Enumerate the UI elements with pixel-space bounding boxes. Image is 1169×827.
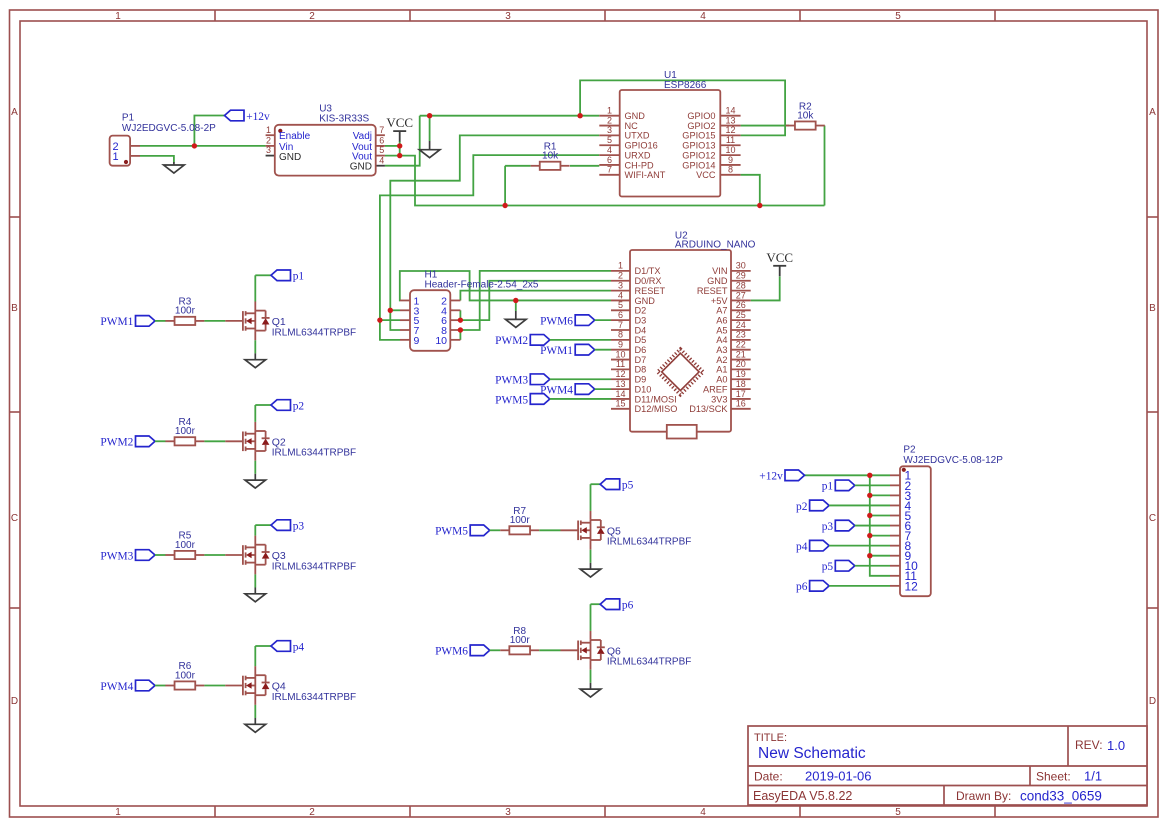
svg-text:New Schematic: New Schematic bbox=[758, 745, 866, 762]
svg-text:3: 3 bbox=[505, 807, 511, 818]
svg-text:3: 3 bbox=[618, 280, 623, 290]
svg-text:ARDUINO_NANO: ARDUINO_NANO bbox=[675, 239, 756, 250]
junction bbox=[502, 203, 507, 208]
svg-text:12: 12 bbox=[905, 579, 919, 593]
transistor Q6 bbox=[561, 631, 692, 670]
svg-text:12: 12 bbox=[615, 369, 625, 379]
svg-text:WJ2EDGVC-5.08-12P: WJ2EDGVC-5.08-12P bbox=[903, 455, 1003, 466]
svg-text:p3: p3 bbox=[822, 521, 834, 533]
wire +12v flag to P2 pin1 bbox=[805, 474, 891, 476]
wire p4 flag lead bbox=[255, 645, 271, 647]
svg-text:1: 1 bbox=[266, 125, 271, 135]
svg-text:GPIO14: GPIO14 bbox=[682, 160, 715, 170]
svg-text:1: 1 bbox=[607, 106, 612, 116]
svg-text:30: 30 bbox=[736, 261, 746, 271]
svg-text:D8: D8 bbox=[635, 365, 647, 375]
junction bbox=[577, 113, 582, 118]
svg-text:GPIO15: GPIO15 bbox=[682, 131, 715, 141]
ground bbox=[580, 563, 601, 577]
net flag p1 at P2 bbox=[822, 480, 855, 493]
svg-text:PWM3: PWM3 bbox=[100, 550, 133, 562]
svg-text:B: B bbox=[11, 303, 18, 314]
net flag p2 bbox=[271, 400, 304, 413]
svg-text:PWM1: PWM1 bbox=[540, 345, 573, 357]
svg-text:9: 9 bbox=[728, 155, 733, 165]
svg-text:1/1: 1/1 bbox=[1084, 769, 1102, 784]
svg-text:11: 11 bbox=[726, 135, 735, 145]
svg-text:p5: p5 bbox=[822, 561, 834, 573]
svg-text:24: 24 bbox=[736, 320, 746, 330]
svg-text:IRLML6344TRPBF: IRLML6344TRPBF bbox=[272, 448, 356, 459]
svg-text:PWM2: PWM2 bbox=[495, 335, 528, 347]
svg-text:29: 29 bbox=[736, 271, 746, 281]
svg-text:+12v: +12v bbox=[246, 111, 270, 123]
net flag PWM6 bbox=[435, 645, 490, 658]
svg-text:GND: GND bbox=[707, 276, 728, 286]
svg-text:p5: p5 bbox=[622, 480, 634, 492]
net flag p3 bbox=[271, 520, 304, 533]
wire Q1 drain to p1 flag bbox=[254, 275, 256, 301]
svg-text:p2: p2 bbox=[796, 501, 808, 513]
wire Q6 drain to p6 flag bbox=[590, 604, 592, 631]
svg-text:p4: p4 bbox=[796, 541, 808, 553]
wire R2 right to VCC rail bbox=[824, 126, 826, 206]
wire p2 to P2 pin4 bbox=[829, 504, 890, 506]
svg-text:C: C bbox=[1149, 513, 1156, 524]
wire rail to P2 pin9 bbox=[870, 555, 890, 557]
wire Q1 source to ground bbox=[254, 340, 256, 353]
svg-text:D5: D5 bbox=[635, 335, 647, 345]
wire ESP8266 GPIO2 to R2 bbox=[741, 125, 789, 127]
svg-text:p1: p1 bbox=[822, 481, 834, 493]
svg-text:1: 1 bbox=[618, 261, 623, 271]
svg-text:7: 7 bbox=[618, 320, 623, 330]
wire R1 left to VCC rail bbox=[504, 166, 506, 206]
wire PWM5 to R bbox=[490, 529, 501, 531]
svg-text:26: 26 bbox=[736, 300, 746, 310]
wire PWM4 to R bbox=[155, 685, 166, 687]
wire VCC net: U3 Vout to ESP8266 VCC / R2 bbox=[385, 156, 825, 206]
svg-text:18: 18 bbox=[736, 379, 746, 389]
svg-text:A1: A1 bbox=[716, 365, 727, 375]
svg-text:VCC: VCC bbox=[696, 170, 716, 180]
svg-text:PWM6: PWM6 bbox=[435, 646, 468, 658]
wire p2 flag lead bbox=[255, 404, 271, 406]
wire ESP8266 pin1 loop to GPIO15 pin12 bbox=[580, 80, 785, 135]
wire P1 pin1 to ground bbox=[140, 156, 174, 163]
svg-text:AREF: AREF bbox=[703, 384, 728, 394]
junction bbox=[458, 327, 463, 332]
wire R to Q5 gate bbox=[539, 529, 560, 531]
wire H1 pin6 to Arduino D0/RX bbox=[460, 281, 611, 320]
svg-text:A4: A4 bbox=[716, 335, 727, 345]
svg-text:A0: A0 bbox=[716, 375, 727, 385]
wire PWM6 to R bbox=[490, 649, 501, 651]
transistor Q4 bbox=[225, 666, 356, 705]
junction bbox=[388, 308, 393, 313]
wire Q3 drain to p3 flag bbox=[254, 525, 256, 536]
wire p4 to P2 pin8 bbox=[829, 545, 890, 547]
svg-text:4: 4 bbox=[607, 145, 612, 155]
net flag p4 bbox=[271, 641, 304, 654]
svg-text:2: 2 bbox=[607, 115, 612, 125]
wire p1 to P2 pin2 bbox=[855, 484, 890, 486]
svg-text:Date:: Date: bbox=[754, 770, 783, 784]
svg-text:UTXD: UTXD bbox=[625, 131, 650, 141]
svg-text:D9: D9 bbox=[635, 375, 647, 385]
connector P2 bbox=[890, 445, 1003, 597]
svg-text:Header-Female-2.54_2x5: Header-Female-2.54_2x5 bbox=[425, 280, 539, 291]
net flag +12v bbox=[225, 110, 271, 123]
svg-text:RESET: RESET bbox=[697, 286, 728, 296]
junction bbox=[867, 553, 872, 558]
svg-text:A3: A3 bbox=[716, 345, 727, 355]
svg-text:WJ2EDGVC-5.08-2P: WJ2EDGVC-5.08-2P bbox=[122, 123, 216, 134]
svg-text:PWM4: PWM4 bbox=[100, 681, 133, 693]
svg-text:cond33_0659: cond33_0659 bbox=[1020, 789, 1102, 804]
net flag p4 at P2 bbox=[796, 540, 829, 553]
wire +12v rail to odd pins bbox=[870, 475, 890, 576]
wire p5 flag lead bbox=[591, 483, 601, 485]
svg-text:21: 21 bbox=[736, 349, 746, 359]
svg-text:2: 2 bbox=[266, 136, 271, 146]
wire PWM1 to R bbox=[155, 320, 166, 322]
svg-text:VIN: VIN bbox=[712, 266, 727, 276]
net flag PWM4 bbox=[540, 384, 595, 397]
svg-text:4: 4 bbox=[700, 807, 706, 818]
junction bbox=[458, 317, 463, 322]
svg-text:D2: D2 bbox=[635, 306, 647, 316]
wire R1 right to ESP8266 CH-PD bbox=[570, 165, 599, 167]
svg-text:VCC: VCC bbox=[386, 115, 413, 130]
svg-text:IRLML6344TRPBF: IRLML6344TRPBF bbox=[607, 657, 691, 668]
svg-text:Vadj: Vadj bbox=[353, 131, 372, 142]
svg-text:15: 15 bbox=[615, 399, 625, 409]
svg-text:p6: p6 bbox=[622, 600, 634, 612]
net flag PWM3 bbox=[100, 550, 155, 563]
wire PWM3 to R bbox=[155, 554, 166, 556]
wire Q2 source to ground bbox=[254, 461, 256, 474]
wire p6 to P2 pin12 bbox=[829, 585, 890, 587]
net flag p3 at P2 bbox=[822, 520, 855, 533]
resistor R3 bbox=[165, 297, 204, 325]
net flag p5 bbox=[600, 479, 633, 492]
svg-text:3: 3 bbox=[607, 125, 612, 135]
svg-text:VCC: VCC bbox=[766, 250, 793, 265]
svg-text:13: 13 bbox=[615, 379, 625, 389]
net flag PWM4 bbox=[100, 680, 155, 693]
wire R to Q3 gate bbox=[204, 554, 225, 556]
svg-text:2019-01-06: 2019-01-06 bbox=[805, 769, 872, 784]
net flag PWM2 bbox=[495, 335, 550, 348]
svg-text:A6: A6 bbox=[716, 315, 727, 325]
junction bbox=[513, 298, 518, 303]
svg-text:1: 1 bbox=[115, 11, 121, 22]
power flag VCC bbox=[386, 115, 413, 142]
junction bbox=[867, 533, 872, 538]
wire rail to P2 pin7 bbox=[870, 535, 890, 537]
svg-text:B: B bbox=[1149, 303, 1156, 314]
svg-text:PWM1: PWM1 bbox=[100, 316, 133, 328]
svg-text:D: D bbox=[11, 696, 18, 707]
wire Q5 source to ground bbox=[590, 550, 592, 563]
svg-text:ESP8266: ESP8266 bbox=[664, 80, 707, 91]
svg-text:GPIO16: GPIO16 bbox=[625, 141, 658, 151]
wire GND net: U3 pin4 riser bbox=[385, 116, 420, 166]
wire PWM3 to Arduino D9 bbox=[550, 378, 611, 380]
junction bbox=[397, 153, 402, 158]
svg-text:2: 2 bbox=[309, 11, 315, 22]
wire H1 pin2 to Arduino RESET bbox=[460, 291, 611, 301]
IC U2 ARDUINO_NANO bbox=[611, 231, 756, 439]
svg-text:D11/MOSI: D11/MOSI bbox=[635, 394, 677, 404]
wire H1 pin8 to pin10 bbox=[459, 330, 461, 340]
wire p3 to P2 pin6 bbox=[855, 525, 890, 527]
svg-text:17: 17 bbox=[736, 389, 746, 399]
svg-text:9: 9 bbox=[414, 335, 420, 347]
transistor Q1 bbox=[225, 302, 356, 341]
svg-text:4: 4 bbox=[700, 11, 706, 22]
svg-text:1: 1 bbox=[113, 151, 119, 163]
svg-text:1.0: 1.0 bbox=[1107, 738, 1125, 753]
svg-text:PWM5: PWM5 bbox=[435, 526, 468, 538]
svg-text:A5: A5 bbox=[716, 325, 727, 335]
net flag PWM2 bbox=[100, 436, 155, 449]
wire p6 flag lead bbox=[591, 603, 601, 605]
svg-text:IRLML6344TRPBF: IRLML6344TRPBF bbox=[607, 537, 691, 548]
svg-text:Q3: Q3 bbox=[272, 550, 286, 562]
svg-text:A2: A2 bbox=[716, 355, 727, 365]
svg-text:4: 4 bbox=[618, 290, 623, 300]
svg-text:p3: p3 bbox=[293, 520, 305, 532]
svg-text:p4: p4 bbox=[293, 641, 305, 653]
header H1 Header-Female-2.54_2x5 bbox=[400, 270, 539, 351]
svg-text:PWM3: PWM3 bbox=[495, 375, 528, 387]
svg-text:GND: GND bbox=[625, 111, 646, 121]
svg-text:Q2: Q2 bbox=[272, 436, 286, 448]
svg-text:GPIO0: GPIO0 bbox=[687, 111, 715, 121]
net flag PWM5 bbox=[435, 525, 490, 538]
wire R to Q1 gate bbox=[204, 320, 225, 322]
resistor R5 bbox=[165, 531, 204, 559]
svg-text:CH-PD: CH-PD bbox=[625, 160, 654, 170]
junction bbox=[397, 143, 402, 148]
svg-text:8: 8 bbox=[618, 330, 623, 340]
wire ESP8266 pin8 VCC to rail bbox=[741, 175, 760, 206]
svg-text:12: 12 bbox=[725, 125, 735, 135]
svg-text:7: 7 bbox=[607, 165, 612, 175]
svg-text:D1/TX: D1/TX bbox=[635, 266, 661, 276]
connector P1 bbox=[110, 113, 217, 166]
svg-text:NC: NC bbox=[625, 121, 639, 131]
svg-text:6: 6 bbox=[607, 155, 612, 165]
wire GND stem to ground near Arduino bbox=[515, 300, 517, 311]
svg-text:10k: 10k bbox=[797, 110, 814, 121]
svg-text:14: 14 bbox=[725, 106, 735, 116]
svg-text:+5V: +5V bbox=[711, 296, 728, 306]
svg-text:p1: p1 bbox=[293, 271, 305, 283]
resistor R2 bbox=[786, 101, 825, 129]
svg-text:D4: D4 bbox=[635, 325, 647, 335]
svg-text:9: 9 bbox=[618, 340, 623, 350]
svg-text:GND: GND bbox=[635, 296, 656, 306]
svg-text:Sheet:: Sheet: bbox=[1036, 770, 1071, 784]
svg-text:10: 10 bbox=[725, 145, 735, 155]
svg-text:Q1: Q1 bbox=[272, 316, 286, 328]
wire p5 to P2 pin10 bbox=[855, 565, 890, 567]
net flag +12v at P2 bbox=[759, 470, 804, 483]
svg-text:GND: GND bbox=[279, 152, 301, 163]
wire PWM5 to Arduino D11/MOSI bbox=[550, 398, 611, 400]
wire UTXD tap to H1 pin3 bbox=[390, 309, 400, 311]
svg-text:3: 3 bbox=[505, 11, 511, 22]
svg-text:6: 6 bbox=[618, 310, 623, 320]
U2 USB connector mark bbox=[667, 425, 697, 439]
wire GND net top rail to ESP8266 pin1 bbox=[420, 115, 600, 117]
svg-text:11: 11 bbox=[616, 359, 625, 369]
svg-text:D7: D7 bbox=[635, 355, 647, 365]
svg-text:7: 7 bbox=[379, 125, 384, 135]
junction bbox=[192, 143, 197, 148]
ground bbox=[419, 141, 440, 158]
svg-text:23: 23 bbox=[736, 330, 746, 340]
ground bbox=[245, 718, 266, 732]
svg-text:5: 5 bbox=[895, 11, 901, 22]
wire Q2 drain to p2 flag bbox=[254, 405, 256, 422]
wire H1 pin4 to pin6 bbox=[459, 310, 461, 320]
IC U1 ESP8266 bbox=[599, 70, 740, 197]
svg-text:D6: D6 bbox=[635, 345, 647, 355]
svg-text:Q6: Q6 bbox=[607, 645, 621, 657]
wire R to Q2 gate bbox=[204, 440, 225, 442]
svg-text:10: 10 bbox=[615, 349, 625, 359]
wire Q4 drain to p4 flag bbox=[254, 646, 256, 666]
wire Q6 source to ground bbox=[590, 670, 592, 683]
svg-text:5: 5 bbox=[379, 145, 384, 155]
svg-text:100r: 100r bbox=[175, 670, 196, 681]
svg-text:100r: 100r bbox=[175, 426, 196, 437]
svg-text:5: 5 bbox=[618, 300, 623, 310]
net flag PWM3 bbox=[495, 374, 550, 387]
svg-text:PWM6: PWM6 bbox=[540, 315, 573, 327]
wire PWM2 to R bbox=[155, 440, 166, 442]
svg-text:D13/SCK: D13/SCK bbox=[689, 404, 728, 414]
svg-text:C: C bbox=[11, 513, 18, 524]
svg-text:8: 8 bbox=[728, 165, 733, 175]
svg-text:6: 6 bbox=[379, 136, 384, 146]
ground bbox=[245, 588, 266, 602]
svg-text:1: 1 bbox=[115, 807, 121, 818]
resistor R4 bbox=[165, 417, 204, 445]
svg-text:3V3: 3V3 bbox=[711, 394, 727, 404]
svg-text:5: 5 bbox=[895, 807, 901, 818]
resistor R1 bbox=[531, 142, 570, 170]
svg-text:Drawn By:: Drawn By: bbox=[956, 789, 1011, 803]
svg-text:GPIO13: GPIO13 bbox=[682, 141, 715, 151]
net flag p1 bbox=[271, 270, 304, 283]
svg-text:2: 2 bbox=[618, 271, 623, 281]
svg-text:D3: D3 bbox=[635, 315, 647, 325]
wire URXD tap to H1 pin5 bbox=[380, 319, 400, 321]
wire Q5 drain to p5 flag bbox=[590, 484, 592, 511]
svg-text:EasyEDA V5.8.22: EasyEDA V5.8.22 bbox=[753, 789, 852, 803]
svg-text:Q4: Q4 bbox=[272, 681, 286, 693]
svg-text:16: 16 bbox=[736, 399, 746, 409]
svg-text:REV:: REV: bbox=[1075, 738, 1103, 752]
svg-text:100r: 100r bbox=[510, 515, 531, 526]
U2 MCU diamond mark bbox=[657, 349, 703, 395]
wire GND stem to ground symbol bbox=[429, 116, 431, 141]
svg-text:13: 13 bbox=[725, 115, 735, 125]
svg-text:+12v: +12v bbox=[759, 471, 783, 483]
wire UTXD net: ESP8266 pin3 to H1 pins 3,7 bbox=[390, 135, 599, 330]
svg-text:4: 4 bbox=[379, 155, 384, 165]
wire R to Q4 gate bbox=[204, 685, 225, 687]
svg-text:IRLML6344TRPBF: IRLML6344TRPBF bbox=[272, 561, 356, 572]
junction bbox=[867, 513, 872, 518]
wire VCC stem at U3 bbox=[399, 141, 401, 156]
wire PWM2 to Arduino D5 bbox=[550, 339, 611, 341]
wire VCC to Arduino +5V pin27 bbox=[751, 277, 780, 301]
wire PWM1 to Arduino D6 bbox=[595, 349, 611, 351]
ground bbox=[245, 353, 266, 367]
svg-text:GND: GND bbox=[350, 162, 372, 173]
ground bbox=[245, 474, 266, 488]
svg-text:28: 28 bbox=[736, 280, 746, 290]
svg-text:5: 5 bbox=[607, 135, 612, 145]
wire rail to P2 pin3 bbox=[870, 494, 890, 496]
wire H1 pin8 to Arduino D1/TX bbox=[460, 271, 611, 330]
junction bbox=[867, 473, 872, 478]
wire PWM4 to Arduino D10 bbox=[595, 388, 611, 390]
svg-text:GPIO2: GPIO2 bbox=[687, 121, 715, 131]
junction bbox=[427, 113, 432, 118]
wire PWM6 to Arduino D3 bbox=[595, 319, 611, 321]
wire U3 pin6 Vout to VCC bbox=[385, 145, 400, 147]
svg-text:WIFI-ANT: WIFI-ANT bbox=[625, 170, 666, 180]
svg-text:PWM5: PWM5 bbox=[495, 394, 528, 406]
resistor R7 bbox=[500, 506, 539, 534]
regulator U3 KIS-3R33S bbox=[266, 104, 385, 176]
wire rail to P2 pin5 bbox=[870, 515, 890, 517]
svg-text:D0/RX: D0/RX bbox=[635, 276, 662, 286]
net flag p6 at P2 bbox=[796, 581, 829, 594]
wire R1 left lead bbox=[505, 165, 530, 167]
transistor Q3 bbox=[225, 536, 356, 575]
junction bbox=[377, 317, 382, 322]
net flag PWM1 bbox=[540, 344, 595, 357]
svg-text:100r: 100r bbox=[510, 635, 531, 646]
svg-text:KIS-3R33S: KIS-3R33S bbox=[319, 114, 369, 125]
svg-text:D10: D10 bbox=[635, 384, 652, 394]
junction bbox=[867, 493, 872, 498]
svg-text:TITLE:: TITLE: bbox=[754, 732, 787, 744]
transistor Q5 bbox=[561, 511, 692, 550]
junction bbox=[757, 203, 762, 208]
svg-text:GPIO12: GPIO12 bbox=[682, 150, 715, 160]
svg-text:D: D bbox=[1149, 696, 1156, 707]
wire p1 flag lead bbox=[255, 274, 271, 276]
power flag VCC bbox=[766, 250, 793, 277]
svg-text:P2: P2 bbox=[903, 445, 916, 456]
wire p3 flag lead bbox=[255, 524, 271, 526]
svg-text:A: A bbox=[1149, 107, 1156, 118]
svg-text:20: 20 bbox=[736, 359, 746, 369]
svg-text:p6: p6 bbox=[796, 581, 808, 593]
svg-text:P1: P1 bbox=[122, 113, 135, 124]
svg-text:A: A bbox=[11, 107, 18, 118]
wire Q4 source to ground bbox=[254, 705, 256, 718]
